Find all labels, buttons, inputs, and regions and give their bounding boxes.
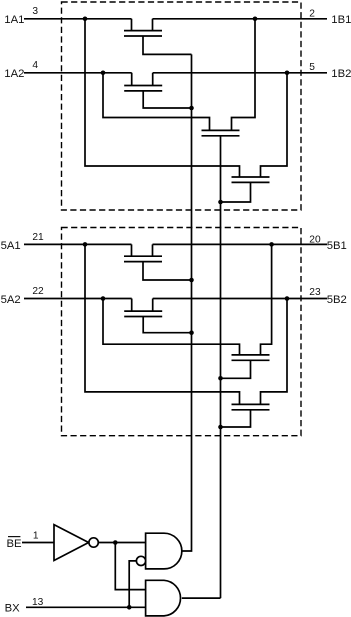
- svg-text:5A1: 5A1: [1, 240, 21, 252]
- svg-text:1A1: 1A1: [4, 14, 24, 26]
- wire Q2 gate to enable line: [143, 91, 191, 108]
- wire 1B2 to Q4 drain: [261, 73, 288, 177]
- svg-text:1: 1: [33, 531, 39, 542]
- wire BE input: [22, 542, 54, 544]
- wire 5B1 output: [153, 243, 328, 245]
- svg-text:BX: BX: [5, 603, 21, 615]
- wire 5B2 output: [153, 298, 327, 300]
- pass transistor Q8 (5A1-5B2 exchange): [232, 404, 270, 409]
- wire Q7 gate to exchange line: [221, 360, 251, 378]
- svg-text:1A2: 1A2: [4, 68, 24, 80]
- AND gate U2 (enable): [146, 533, 182, 569]
- wire 5A1 to Q8 source: [85, 244, 240, 404]
- svg-text:5: 5: [309, 62, 315, 73]
- pass transistor Q6 (5A2-5B2): [124, 299, 162, 317]
- wire 5B2 to Q8 drain: [261, 299, 288, 405]
- wire 1A1 to Q4 source: [85, 19, 240, 177]
- svg-text:5B2: 5B2: [327, 294, 347, 306]
- AND gate U3 (exchange): [146, 580, 181, 616]
- wire 1B2 output: [153, 72, 327, 74]
- wire inverter output to AND gates: [98, 542, 145, 544]
- junction Q8 gate on exchange line: [218, 425, 223, 430]
- svg-text:4: 4: [32, 60, 38, 71]
- pass transistor Q1 (1A1-1B1): [124, 19, 162, 36]
- node 5B1 branch junction: [269, 242, 274, 247]
- pass transistor Q3 (1A2-1B1 exchange): [202, 130, 240, 135]
- svg-text:20: 20: [309, 234, 321, 245]
- wire U2 output to enable line: [182, 54, 192, 551]
- svg-text:1B2: 1B2: [331, 68, 351, 80]
- U2 input bubble: [136, 556, 145, 565]
- wire BX input: [26, 606, 146, 608]
- node 5A2 branch junction: [101, 296, 106, 301]
- wire 1B1 output: [153, 18, 328, 20]
- inverter U1: [54, 525, 89, 561]
- junction Q6 gate on enable line: [189, 330, 194, 335]
- svg-text:13: 13: [32, 597, 44, 608]
- wire Q5 gate to enable line: [143, 262, 192, 280]
- svg-text:23: 23: [309, 287, 321, 298]
- wire inverter output down to gate U3 input: [115, 543, 145, 590]
- svg-text:22: 22: [32, 286, 44, 297]
- wire Q1 gate to enable line: [143, 36, 192, 54]
- wire 5A1 input: [24, 243, 132, 245]
- dashed box section 1: [62, 2, 302, 210]
- wire 1A2 input: [24, 72, 132, 74]
- node 1A1 branch junction: [83, 17, 88, 22]
- dashed box section 2: [62, 228, 302, 436]
- wire Q4 gate to exchange line: [221, 182, 251, 202]
- wire 5A2 to Q7 source: [103, 299, 240, 355]
- node 5A1 branch junction: [83, 242, 88, 247]
- pass transistor Q4 (1A1-1B2 exchange): [232, 177, 270, 182]
- svg-text:5A2: 5A2: [1, 294, 21, 306]
- wire 1A1 input: [24, 18, 132, 20]
- wire 5A2 input: [24, 298, 132, 300]
- inverter U1 output bubble: [89, 538, 98, 547]
- pass transistor Q5 (5A1-5B1): [124, 244, 162, 261]
- junction Q7 gate on exchange line: [218, 376, 223, 381]
- pass transistor Q2 (1A2-1B2): [124, 73, 162, 91]
- wire 1A2 to Q3 source: [103, 73, 210, 131]
- node 1B2 branch junction: [285, 71, 290, 76]
- junction Q5 gate on enable line: [189, 278, 194, 283]
- junction inverter output: [113, 540, 118, 545]
- svg-text:1B1: 1B1: [331, 14, 351, 26]
- wire 5B1 to Q7 drain: [261, 244, 272, 355]
- wire 1B1 to Q3 drain: [232, 19, 256, 131]
- pass transistor Q7 (5A2-5B1 exchange): [232, 355, 270, 360]
- junction Q4 gate on exchange line: [218, 200, 223, 205]
- svg-text:3: 3: [32, 6, 38, 17]
- node 5B2 branch junction: [285, 296, 290, 301]
- node 1A2 branch junction: [101, 71, 106, 76]
- junction Q2 gate on enable line: [189, 106, 194, 111]
- svg-text:2: 2: [309, 9, 315, 20]
- wire Q3 gate exchange line top: [220, 136, 222, 598]
- svg-text:5B1: 5B1: [327, 240, 347, 252]
- svg-text:21: 21: [32, 232, 44, 243]
- wire BX up to U2 inverted input: [129, 561, 136, 607]
- svg-text:BE: BE: [7, 538, 23, 550]
- wire Q6 gate to enable line: [143, 317, 191, 333]
- junction BX branch: [127, 605, 132, 610]
- wire Q8 gate to exchange line: [221, 410, 251, 427]
- node 1B1 branch junction: [253, 17, 258, 22]
- wire U3 output to exchange line: [182, 597, 221, 599]
